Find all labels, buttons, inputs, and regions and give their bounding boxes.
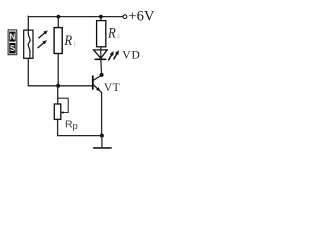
svg-text:VT: VT <box>104 82 120 94</box>
wire R2 top stub <box>100 17 102 21</box>
wire pot top lead <box>57 86 59 104</box>
transistor emitter lead with arrow <box>93 85 101 93</box>
resistor R1 <box>54 28 62 54</box>
wire sensor bottom to base rail <box>27 58 29 86</box>
svg-text:R: R <box>63 33 72 49</box>
svg-text:VD: VD <box>122 49 141 61</box>
potentiometer RP body <box>54 104 61 119</box>
ground stem <box>101 136 103 148</box>
LED cathode bar <box>95 58 105 60</box>
LED through lead <box>100 50 102 59</box>
magnetoresistor internal bent element <box>28 30 30 58</box>
LED VD triangle <box>94 50 108 58</box>
LED light arrow 1 <box>109 52 114 60</box>
magnet N pole <box>9 32 15 42</box>
node dot R1/top rail <box>57 15 61 19</box>
terminal +6V circle <box>123 15 127 19</box>
wire LED to collector node <box>100 59 103 75</box>
wire R1 top stub <box>57 17 59 28</box>
svg-text:2: 2 <box>117 33 120 40</box>
svg-text:p: p <box>73 121 78 132</box>
transistor VT base bar <box>92 76 94 89</box>
field arrow 1 at sensor <box>39 31 48 38</box>
potentiometer wiper loop <box>58 98 68 112</box>
ground bar <box>94 147 111 149</box>
svg-text:1: 1 <box>73 40 76 47</box>
wire top horizontal rail <box>28 16 123 18</box>
node dot collector <box>100 73 104 77</box>
magnet outer frame <box>8 30 17 55</box>
node dot ground junction <box>100 134 104 138</box>
svg-text:R: R <box>107 26 116 42</box>
magnet S pole <box>9 43 15 53</box>
wire R1 bottom to base rail <box>57 54 59 86</box>
wire R2 bottom to LED <box>100 47 102 50</box>
transistor collector lead <box>93 75 101 80</box>
node dot base junction <box>56 84 60 88</box>
wire left branch down from rail to magnetoresistor <box>27 16 29 30</box>
node dot R2/top rail <box>99 15 103 19</box>
svg-text:N: N <box>10 33 16 42</box>
svg-text:S: S <box>10 44 15 53</box>
resistor R2 <box>97 21 106 47</box>
field arrow 2 at sensor <box>38 41 47 48</box>
wire pot bottom to ground rail <box>58 119 102 135</box>
wire base rail horizontal <box>28 85 92 87</box>
wire emitter down to ground rail <box>101 92 103 135</box>
svg-text:+6V: +6V <box>128 8 155 24</box>
magnetoresistor body <box>24 30 33 58</box>
wiper arrowhead <box>61 111 64 113</box>
LED light arrow 2 <box>114 51 119 59</box>
